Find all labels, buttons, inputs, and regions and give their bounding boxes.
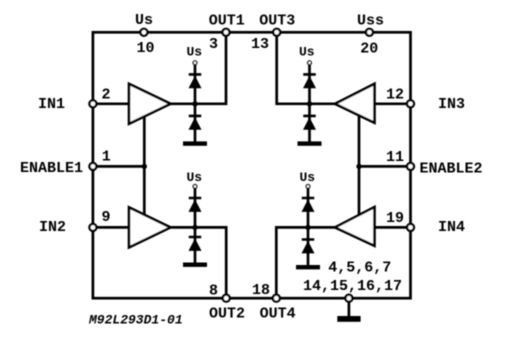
svg-text:Us: Us bbox=[187, 170, 203, 185]
wire ENABLE2 pin 11 to enable bus bbox=[359, 165, 411, 168]
wire OUT1 net: buffer A1 output to pin 3 bbox=[171, 32, 227, 104]
junction node column 4 / OUT4 bbox=[305, 225, 310, 230]
pin 20 terminal (Vss) bbox=[366, 29, 373, 36]
svg-text:18: 18 bbox=[252, 282, 270, 299]
junction node column 2 / OUT2 bbox=[192, 225, 197, 230]
diode D8 (column 4 lower, to ground) bbox=[302, 238, 315, 253]
buffer A3 bbox=[335, 84, 375, 123]
svg-text:19: 19 bbox=[386, 210, 404, 227]
svg-text:OUT3: OUT3 bbox=[259, 12, 295, 29]
svg-text:IN1: IN1 bbox=[38, 96, 65, 113]
svg-text:Uss: Uss bbox=[357, 12, 384, 29]
junction node ENABLE1 bus bbox=[142, 164, 147, 169]
ground bar column 4 bbox=[296, 265, 320, 269]
pin 2 terminal (IN1) bbox=[89, 100, 96, 107]
junction node column 3 / OUT3 bbox=[307, 101, 312, 106]
wire IN1 pin 2 to buffer A1 input bbox=[93, 102, 129, 105]
diode D7 (column 4 upper, to Vs) bbox=[302, 197, 315, 212]
ground bar column 2 bbox=[183, 263, 207, 267]
diode D3 (column 2 upper, to Vs) bbox=[189, 197, 202, 212]
wire clamp diode column 3 (Vs to ground) bbox=[308, 64, 311, 142]
svg-text:Us: Us bbox=[187, 45, 203, 60]
diode D6 (column 3 lower, to ground) bbox=[303, 115, 316, 130]
svg-text:Us: Us bbox=[135, 12, 153, 29]
wire enable bus right (A3 to A4) bbox=[358, 112, 361, 219]
wire ENABLE1 pin 1 to enable bus bbox=[93, 165, 144, 168]
svg-text:ENABLE1: ENABLE1 bbox=[20, 160, 83, 177]
pin 9 terminal (IN2) bbox=[89, 224, 96, 231]
svg-text:20: 20 bbox=[360, 40, 378, 57]
wire IN2 pin 9 to buffer A2 input bbox=[93, 226, 129, 229]
diode D5 (column 3 upper, to Vs) bbox=[303, 73, 316, 88]
Vs terminal circle column 1 bbox=[193, 61, 197, 65]
svg-text:2: 2 bbox=[102, 87, 111, 104]
IC outline box bbox=[93, 32, 411, 298]
svg-text:13: 13 bbox=[251, 36, 269, 53]
svg-text:10: 10 bbox=[137, 40, 155, 57]
svg-text:IN2: IN2 bbox=[39, 219, 66, 236]
wire OUT3 net: buffer A3 output to pin 13 bbox=[277, 32, 335, 104]
wire clamp diode column 4 (Vs to ground) bbox=[307, 188, 310, 266]
pin 3 terminal (OUT1) bbox=[223, 29, 230, 36]
ground pins terminal bbox=[345, 295, 352, 302]
svg-text:OUT4: OUT4 bbox=[260, 306, 296, 323]
svg-text:4,5,6,7: 4,5,6,7 bbox=[328, 259, 391, 276]
ground bar column 3 bbox=[298, 141, 322, 145]
ground bar column 1 bbox=[183, 141, 207, 145]
wire enable bus left (A1 to A2) bbox=[143, 113, 146, 218]
diode D4 (column 2 lower, to ground) bbox=[189, 236, 202, 251]
buffer A2 bbox=[129, 207, 171, 247]
svg-text:9: 9 bbox=[102, 209, 111, 226]
buffer A1 bbox=[129, 84, 171, 124]
svg-text:Us: Us bbox=[299, 45, 315, 60]
svg-text:14,15,16,17: 14,15,16,17 bbox=[303, 278, 402, 295]
pin 1 terminal (ENABLE1) bbox=[89, 163, 96, 170]
svg-text:11: 11 bbox=[386, 149, 404, 166]
wire IN4 pin 19 to buffer A4 input bbox=[375, 226, 411, 229]
wire IN3 pin 12 to buffer A3 input bbox=[375, 102, 411, 105]
wire OUT4 net: buffer A4 output to pin 18 bbox=[276, 227, 335, 298]
Vs terminal circle column 3 bbox=[308, 61, 312, 65]
junction node ENABLE2 bus bbox=[356, 164, 361, 169]
Vs terminal circle column 4 bbox=[306, 185, 310, 189]
wire clamp diode column 1 (Vs to ground) bbox=[194, 64, 197, 142]
svg-text:ENABLE2: ENABLE2 bbox=[420, 160, 483, 177]
svg-text:12: 12 bbox=[386, 87, 404, 104]
svg-text:3: 3 bbox=[209, 36, 218, 53]
junction node column 1 / OUT1 bbox=[192, 101, 197, 106]
wire OUT2 net: buffer A2 output to pin 8 bbox=[171, 227, 227, 298]
pin 10 terminal (Vs) bbox=[140, 29, 147, 36]
svg-text:IN4: IN4 bbox=[438, 219, 465, 236]
pin 11 terminal (ENABLE2) bbox=[407, 163, 414, 170]
svg-text:8: 8 bbox=[209, 283, 218, 300]
pin 18 terminal (OUT4) bbox=[273, 295, 280, 302]
pin 13 terminal (OUT3) bbox=[273, 29, 280, 36]
pin 19 terminal (IN4) bbox=[407, 224, 414, 231]
pin 8 terminal (OUT2) bbox=[223, 295, 230, 302]
diode D1 (column 1 upper, to Vs) bbox=[189, 73, 202, 88]
Vs terminal circle column 2 bbox=[193, 185, 197, 189]
svg-text:Us: Us bbox=[300, 170, 316, 185]
svg-text:IN3: IN3 bbox=[438, 96, 465, 113]
wire clamp diode column 2 (Vs to ground) bbox=[194, 188, 197, 264]
svg-text:OUT1: OUT1 bbox=[209, 12, 245, 29]
ground symbol at ground pins bbox=[337, 316, 360, 322]
diode D2 (column 1 lower, to ground) bbox=[189, 115, 202, 130]
svg-text:OUT2: OUT2 bbox=[209, 306, 245, 323]
wire ground pin stub bbox=[348, 298, 351, 316]
pin 12 terminal (IN3) bbox=[407, 100, 414, 107]
svg-text:M92L293D1-01: M92L293D1-01 bbox=[88, 312, 183, 327]
svg-text:1: 1 bbox=[102, 148, 111, 165]
buffer A4 bbox=[335, 207, 375, 246]
